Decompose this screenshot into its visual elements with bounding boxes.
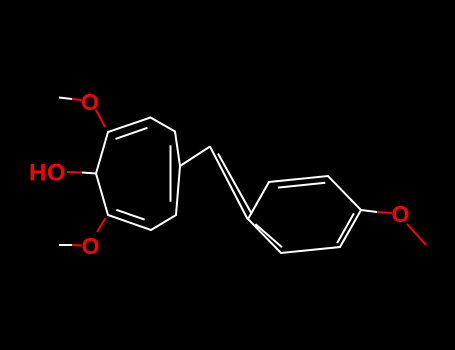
ring 1 aromatic inner line: NW-N edge	[116, 128, 148, 139]
top methoxy methyl bond (red half)	[72, 99, 81, 100]
ring 1 aromatic inner line: right vertical edge	[170, 145, 172, 201]
right methoxy methyl bond (red)	[407, 224, 426, 245]
bottom methoxy methyl bond (white half)	[59, 244, 72, 246]
vinyl bond ring1 to C1	[180, 147, 210, 167]
bond top O to ring 1 NW (red)	[96, 110, 105, 127]
svg-text:HO: HO	[29, 160, 66, 187]
svg-text:O: O	[82, 233, 100, 259]
bond ring 2 E to O (red half)	[377, 212, 392, 213]
top methoxy methyl bond (white half)	[59, 98, 72, 100]
bond HO to ring 1 (white half)	[82, 173, 96, 174]
ring 2 aromatic inner line: E-SE edge	[337, 213, 354, 243]
benzene ring 1 (syringyl ring) outline	[96, 118, 180, 231]
ring 2 aromatic inner line: SW-W edge	[255, 224, 282, 247]
vinyl double bond C1=C2 main line	[210, 147, 248, 220]
bond HO to ring 1 (red half)	[67, 171, 82, 174]
bottom methoxy methyl bond (red half)	[72, 244, 81, 247]
ring 1 aromatic inner line: S-SW edge	[116, 210, 144, 220]
vinyl double bond C1=C2 second line	[218, 154, 252, 214]
svg-text:O: O	[392, 201, 410, 227]
ring 2 aromatic inner line: top edge	[278, 183, 325, 188]
bond bottom O to ring 1 SW (red)	[97, 218, 106, 232]
bond ring 2 E to O (white half)	[361, 210, 377, 212]
benzene ring 2 (anisyl ring) outline	[248, 176, 361, 253]
